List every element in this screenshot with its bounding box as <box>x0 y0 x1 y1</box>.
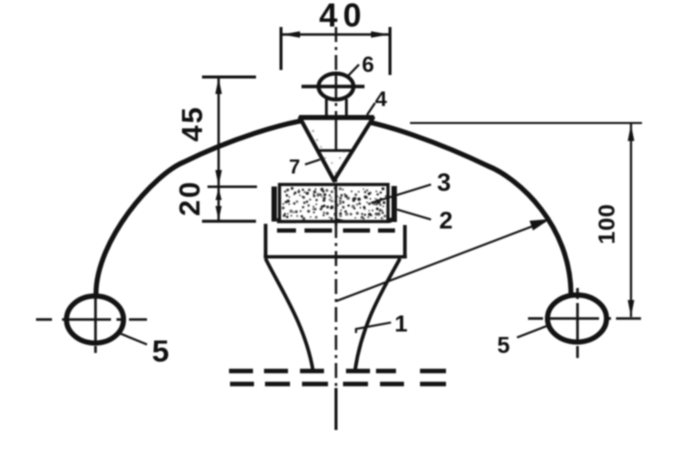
wire: vertical centerline (dash-dot) <box>335 27 337 430</box>
component: hammer stem left edge <box>325 99 328 117</box>
node: granular stipple dots part A <box>283 187 387 205</box>
node: granular stipple dots part B <box>282 201 387 221</box>
node: cone faint stipple <box>312 130 345 174</box>
svg-text:5: 5 <box>152 334 169 369</box>
node: leader line to left label 5 <box>119 333 147 345</box>
node: leader line to label 4 <box>367 103 375 115</box>
component: pedestal 1 trumpet right profile <box>355 259 400 371</box>
wire: dimension 45/20 vertical line <box>217 77 219 221</box>
wire: container hidden bottom dashes <box>277 228 395 232</box>
svg-text:3: 3 <box>437 169 451 197</box>
node: dimension 100 arrowheads <box>628 125 635 317</box>
wire: long leader arrow pointing to arc <box>337 222 546 302</box>
svg-text:40: 40 <box>319 0 367 34</box>
svg-text:100: 100 <box>594 204 620 245</box>
wire: main bell arc from left trunnion to right trunnion <box>96 118 571 296</box>
component: pedestal 1 trumpet left profile <box>266 259 314 371</box>
svg-text:20: 20 <box>175 180 207 216</box>
wire: left trunnion vertical centerline <box>94 295 97 353</box>
node: leader line to label 6 <box>347 65 359 78</box>
node: leader line to label 2 <box>397 210 431 220</box>
wire: dimension 40 line <box>282 33 389 36</box>
wire: right trunnion horizontal centerline <box>528 317 641 320</box>
component: specimen box 3 (granular material) <box>280 185 389 222</box>
node: trumpet right foot <box>346 369 370 373</box>
wire: centerline inside upper cone <box>335 118 337 150</box>
node: small arrow on centerline in box <box>330 220 342 222</box>
wire: dimension 100 top extension line <box>410 122 642 124</box>
wire: vertical centerline through knob <box>335 73 337 99</box>
svg-text:5: 5 <box>497 332 510 358</box>
node: leader line to label 7 <box>305 160 320 165</box>
node: dimension label 100 (rotated) <box>594 204 620 245</box>
component: container 2 right outer wall <box>392 186 397 222</box>
node: dimension 45/20 arrowheads <box>215 78 222 220</box>
component: container 2 bottom-left corner stub <box>277 210 296 221</box>
svg-text:1: 1 <box>394 311 407 337</box>
svg-text:2: 2 <box>439 207 453 234</box>
wire: base dashed line row 2 <box>230 382 446 386</box>
node: dimension 45/20 extension ticks <box>202 77 257 221</box>
component: pedestal right wall <box>403 225 407 257</box>
wire: base dashed line row 1 <box>229 369 446 373</box>
wire: centerline through specimen box <box>335 184 337 226</box>
node: leader arrowhead at arc <box>530 219 551 231</box>
svg-text:45: 45 <box>177 105 209 141</box>
node: dimension label 20 (rotated) <box>175 180 207 216</box>
component: right trunnion circle 5 <box>548 295 607 342</box>
node: leader line to right label 5 <box>517 326 548 338</box>
component: ball knob 6 <box>319 74 354 100</box>
node: leader line to label 3 <box>371 185 431 204</box>
node: dimension label 45 (rotated) <box>177 105 209 141</box>
wire: centerline solid below base <box>335 388 338 430</box>
svg-text:6: 6 <box>362 52 374 77</box>
wire: left trunnion horizontal centerline <box>36 318 147 321</box>
svg-text:7: 7 <box>289 157 300 179</box>
component: left trunnion circle 5 <box>67 296 124 343</box>
component: container 2 left outer wall <box>272 187 277 222</box>
node: dimension 40 top extension ticks <box>281 27 390 75</box>
node: leader line to label 1 <box>356 323 391 334</box>
wire: horizontal line through knob <box>302 85 365 88</box>
node: cone inner transition line <box>316 149 353 152</box>
component: hammer stem right edge <box>345 99 348 117</box>
node: trumpet left foot <box>300 369 324 373</box>
component: pedestal top plate <box>264 255 407 258</box>
component: punch cone 4 (white filled, interrupts arc) <box>300 118 373 181</box>
component: pedestal left wall <box>264 224 268 257</box>
svg-text:4: 4 <box>375 87 387 111</box>
wire: dimension 100 vertical line <box>630 123 632 317</box>
node: dimension 40 arrowheads <box>282 31 389 38</box>
component: container 2 bottom-right corner stub <box>374 209 392 220</box>
wire: right trunnion vertical centerline <box>576 288 579 358</box>
